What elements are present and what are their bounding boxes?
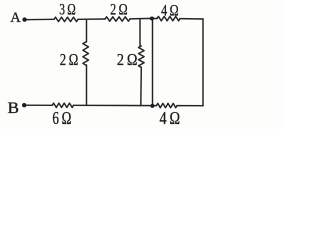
junction node top (4-ohm / 2-ohm) (150, 17, 154, 21)
resistor R1 3ohm (top left) (54, 17, 78, 21)
resistor R4 6ohm (bottom left) (52, 103, 73, 107)
wire: vertical branch 3 (plain) (152, 19, 154, 107)
svg-text:4 Ω: 4 Ω (161, 3, 179, 20)
resistor R7 2ohm (vertical right) (139, 46, 145, 67)
resistor R6 2ohm (vertical left) (83, 42, 89, 65)
svg-text:2 Ω: 2 Ω (110, 2, 128, 19)
resistor R5 4ohm (bottom right) (157, 103, 178, 107)
wire: vertical branch 2 upper (139, 19, 141, 46)
wire: vertical branch 1 upper (86, 19, 88, 42)
wire: 2-ohm to node D and node E (130, 17, 157, 20)
svg-text:6 Ω: 6 Ω (52, 108, 71, 128)
wire: A to 3-ohm (25, 18, 54, 20)
resistor R2 2ohm (top middle) (105, 17, 130, 21)
wire: vertical branch 2 lower (140, 67, 143, 105)
svg-text:A: A (10, 10, 21, 26)
svg-text:4 Ω: 4 Ω (160, 108, 181, 128)
wire: 3-ohm to node C (78, 18, 105, 20)
wire: bottom middle (74, 104, 157, 106)
junction node bottom (150, 104, 154, 108)
wire: vertical branch 1 lower (86, 65, 88, 105)
wire: B to 6-ohm (24, 104, 52, 106)
terminal dot A (22, 17, 26, 21)
wire: bottom-right corner (177, 105, 203, 107)
svg-text:3 Ω: 3 Ω (59, 2, 76, 19)
svg-text:B: B (8, 100, 20, 117)
terminal dot B (22, 103, 26, 107)
resistor R3 4ohm (top right) (157, 16, 180, 20)
wire: 4-ohm to top-right corner (180, 18, 203, 20)
svg-text:2 Ω: 2 Ω (60, 50, 79, 69)
svg-text:2 Ω: 2 Ω (117, 50, 137, 69)
wire: right edge (202, 19, 204, 106)
